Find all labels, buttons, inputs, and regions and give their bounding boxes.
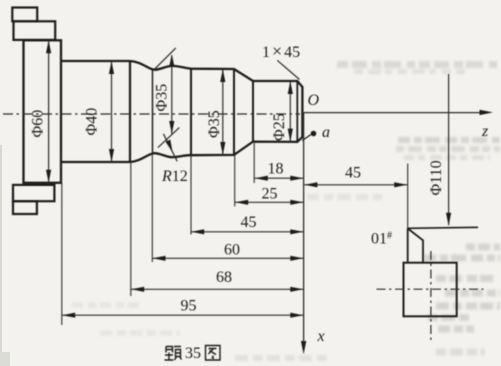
dimension Φ35 first (curved section) bbox=[171, 56, 173, 134]
dimension 95 bbox=[62, 314, 304, 316]
dimension 18 bbox=[254, 177, 303, 179]
svg-text:45: 45 bbox=[241, 214, 257, 231]
chuck jaw top step 2 bbox=[14, 21, 56, 40]
svg-text:Φ35: Φ35 bbox=[154, 84, 171, 112]
shaft step line at x=130 bbox=[129, 61, 131, 162]
dimension Φ35 second bbox=[222, 69, 224, 155]
dimension Φ25 bbox=[289, 81, 291, 142]
extension line from x=130 bbox=[130, 162, 132, 296]
svg-text:Φ110: Φ110 bbox=[428, 160, 445, 195]
svg-text:x: x bbox=[317, 328, 325, 345]
svg-text:R12: R12 bbox=[161, 168, 188, 185]
svg-text:35: 35 bbox=[185, 345, 201, 362]
svg-text:Φ40: Φ40 bbox=[84, 108, 101, 136]
extension line from x=253 bbox=[253, 143, 255, 183]
centerline bbox=[3, 113, 300, 115]
chamfer junction line x=297.3 bbox=[296, 81, 298, 142]
shaft Φ40 section top edge bbox=[61, 60, 130, 62]
svg-text:O: O bbox=[308, 92, 320, 109]
svg-text:Φ60: Φ60 bbox=[30, 110, 47, 138]
chuck jaw top step 1 bbox=[12, 8, 37, 22]
svg-text:18: 18 bbox=[268, 161, 284, 178]
svg-text:45: 45 bbox=[345, 165, 361, 182]
z axis bbox=[302, 112, 480, 114]
svg-text:a: a bbox=[322, 124, 330, 141]
svg-text:25: 25 bbox=[262, 186, 278, 203]
junction line at groove trough x=152.5 bbox=[152, 69, 154, 153]
extension line from x=234 bbox=[234, 155, 236, 207]
dimension 60 bbox=[152, 257, 303, 259]
x axis bbox=[303, 113, 305, 342]
tool holder block bbox=[404, 263, 457, 317]
extension line from Φ60 right edge bbox=[61, 183, 63, 325]
svg-text:1×45: 1×45 bbox=[262, 41, 300, 61]
svg-text:Φ35: Φ35 bbox=[206, 110, 223, 138]
chuck jaw bottom step 2 bbox=[13, 201, 37, 214]
caption 题35图 bbox=[165, 346, 182, 360]
R12 leader bbox=[158, 128, 179, 148]
junction line x=191 bbox=[190, 69, 192, 156]
point a bbox=[311, 131, 317, 137]
svg-text:60: 60 bbox=[224, 242, 240, 259]
shaft Φ40 section bottom edge bbox=[61, 161, 130, 163]
dimension 25 bbox=[235, 201, 304, 203]
tool nose bbox=[407, 228, 409, 262]
dimension 68 bbox=[131, 288, 304, 290]
svg-text:68: 68 bbox=[216, 269, 232, 286]
leader tick at groove bbox=[154, 48, 175, 69]
dimension 45 tool offset bbox=[304, 184, 407, 186]
tool top edge bbox=[408, 227, 478, 228]
dimension 45 bbox=[191, 231, 304, 233]
dimension Φ40 bbox=[111, 61, 113, 162]
junction line x=234 bbox=[233, 69, 235, 155]
svg-text:z: z bbox=[481, 123, 489, 140]
tool centerline vertical bbox=[430, 251, 432, 341]
dimension Φ110 bbox=[448, 74, 450, 225]
tool centerline horizontal bbox=[377, 288, 484, 290]
extension line tool tip bbox=[407, 164, 409, 229]
shaft Φ60 section bbox=[24, 40, 62, 183]
extension line from x=191 bbox=[190, 155, 192, 234]
svg-text:Φ25: Φ25 bbox=[271, 113, 288, 141]
extension line from trough bbox=[151, 154, 153, 263]
svg-text:95: 95 bbox=[181, 298, 197, 315]
shaft outline right portion bbox=[130, 61, 302, 162]
junction line x=253 bbox=[252, 81, 254, 142]
dimension Φ60 bbox=[48, 40, 50, 183]
chuck jaw bottom step 1 bbox=[13, 185, 54, 201]
